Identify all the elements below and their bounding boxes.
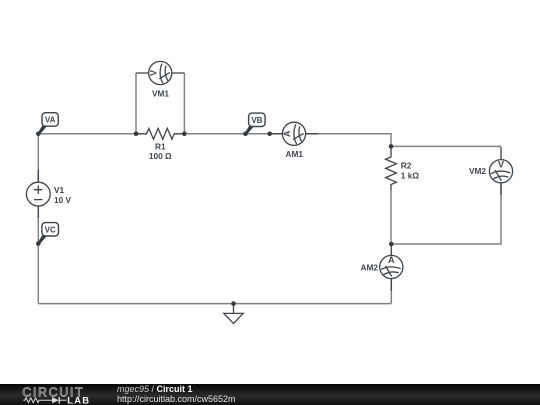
node dot VA: [36, 132, 41, 137]
svg-text:VM2: VM2: [469, 166, 486, 176]
footer bar: [0, 384, 540, 405]
node dot VC: [36, 241, 41, 246]
svg-text:A: A: [388, 255, 395, 265]
node dot R2 top: [389, 144, 394, 149]
wire VA node down to V1 top: [37, 134, 39, 182]
wire AM1 to right corner, down to R2 node: [306, 134, 391, 147]
wire VM2 bottom branch: [391, 183, 501, 244]
svg-text:AM1: AM1: [286, 149, 304, 159]
ammeter AM2: [380, 255, 403, 278]
svg-text:10 V: 10 V: [54, 195, 72, 205]
wire R2 node to VM2 top: [391, 145, 501, 147]
node flag VC: [38, 223, 59, 245]
voltage source V1: [26, 170, 50, 218]
wire VA node to R1 (top left horizontal): [38, 133, 136, 135]
resistor R2: [386, 146, 397, 190]
svg-text:VB: VB: [251, 116, 262, 125]
CircuitLab logo: [22, 384, 102, 405]
svg-text:V1: V1: [54, 185, 65, 195]
wire bottom rail: [38, 303, 391, 305]
wire VM1 left riser: [135, 73, 137, 134]
node dot AM2 top junction: [389, 242, 394, 247]
svg-text:LAB: LAB: [67, 394, 90, 405]
node dot VB: [243, 132, 248, 137]
wire AM2 bottom to bottom rail: [390, 279, 392, 304]
wire R2 bottom to AM2 junction: [390, 190, 392, 244]
svg-text:A: A: [282, 130, 292, 137]
ammeter AM1: [282, 122, 305, 145]
AM2 leads: [390, 244, 392, 291]
wire R1 to AM1: [184, 133, 282, 135]
svg-text:V: V: [148, 70, 158, 76]
voltmeter VM1: [148, 61, 171, 84]
wire VM1 right riser: [183, 73, 185, 134]
svg-text:100 Ω: 100 Ω: [149, 151, 172, 161]
node flag VA: [38, 113, 59, 135]
svg-text:VA: VA: [45, 116, 56, 125]
node dot R1 right: [182, 132, 187, 137]
svg-text:VM1: VM1: [152, 89, 169, 99]
svg-text:VC: VC: [45, 226, 56, 235]
svg-text:AM2: AM2: [360, 262, 378, 272]
svg-text:R2: R2: [401, 160, 412, 170]
svg-text:R1: R1: [155, 142, 166, 152]
node flag VB: [245, 113, 265, 135]
svg-text:V: V: [498, 159, 504, 169]
node dot R1 left: [134, 132, 139, 137]
voltmeter VM2: [489, 159, 512, 182]
AM1 leads: [270, 133, 318, 135]
node dot ground: [231, 301, 236, 306]
VM2 leads: [500, 147, 502, 195]
resistor R1: [136, 128, 184, 139]
node dot AM1 left terminal: [267, 132, 272, 137]
VM1 leads: [136, 72, 184, 74]
wire V1 bottom to bottom rail: [37, 206, 39, 304]
footer credit text: [117, 385, 236, 404]
svg-text:1 kΩ: 1 kΩ: [401, 170, 420, 180]
ground: [224, 304, 243, 324]
